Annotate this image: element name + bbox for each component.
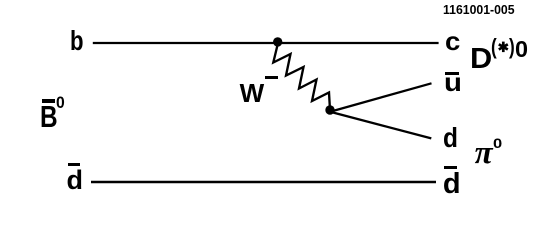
vertex dot b-W-c (273, 37, 282, 46)
meson label Bbar0 : superscript 0 (56, 95, 65, 112)
wire dbar spectator (bottom quark line) (91, 181, 436, 183)
quark label ubar : u (444, 69, 462, 95)
W- boson zigzag propagator (273, 43, 330, 110)
wire d from W vertex (331, 112, 431, 138)
quark label d (right) (443, 124, 458, 152)
meson label pi0 : pi (475, 137, 493, 170)
meson label Bbar0 : B (40, 102, 58, 133)
meson label pi0 : superscript 0 (493, 136, 502, 150)
meson label D(*)0 : superscript (*)0 (491, 36, 497, 58)
boson label W superscript minus (265, 76, 277, 79)
meson label D(*)0 : superscript 0 (515, 38, 528, 61)
quark label dbar bottom-right : d (443, 170, 461, 199)
meson label D(*)0 : D (470, 45, 492, 74)
wire b to c (top quark line) (93, 42, 439, 44)
quark label dbar bottom-right : bar (444, 166, 457, 169)
boson label W (240, 80, 265, 106)
quark label c (445, 28, 460, 54)
quark label ubar : bar (445, 72, 459, 75)
wire ubar from W vertex (331, 83, 432, 111)
vertex dot W-ubar-d (325, 105, 334, 114)
meson label Bbar0 : bar (42, 99, 55, 103)
figure number 1161001-005 (443, 3, 515, 16)
quark label dbar bottom-left : d (67, 167, 84, 194)
quark label b (70, 27, 84, 55)
quark label dbar bottom-left : bar (68, 163, 80, 166)
meson label D(*)0 : superscript ) (509, 36, 515, 58)
